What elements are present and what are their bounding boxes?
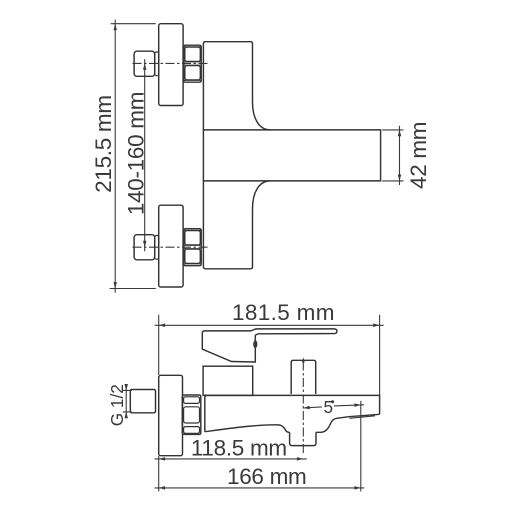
svg-text:G 1/2: G 1/2 xyxy=(107,384,127,426)
svg-text:42 mm: 42 mm xyxy=(406,122,431,189)
svg-text:181.5 mm: 181.5 mm xyxy=(232,300,335,325)
svg-text:140-160 mm: 140-160 mm xyxy=(123,92,148,215)
svg-text:5: 5 xyxy=(324,397,334,417)
svg-text:118.5 mm: 118.5 mm xyxy=(191,435,287,460)
svg-text:166 mm: 166 mm xyxy=(227,464,306,489)
svg-text:215.5 mm: 215.5 mm xyxy=(91,95,116,193)
